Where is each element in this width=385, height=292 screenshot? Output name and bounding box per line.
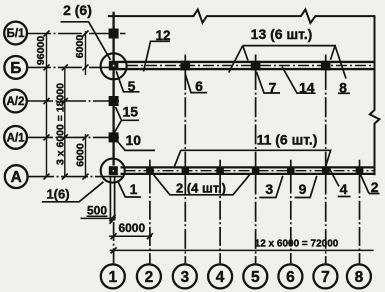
ticks 6000 bbox=[111, 233, 117, 239]
node circle at А x1 bbox=[101, 159, 125, 183]
beam А bottom chord bbox=[121, 173, 375, 175]
svg-text:А/2: А/2 bbox=[6, 96, 24, 108]
svg-text:6000: 6000 bbox=[74, 35, 86, 59]
svg-text:11 (6 шт.): 11 (6 шт.) bbox=[257, 131, 318, 147]
svg-text:2: 2 bbox=[145, 269, 154, 286]
top boundary line with two break zigzags bbox=[108, 9, 375, 23]
svg-text:Б/1: Б/1 bbox=[7, 28, 25, 40]
axis 1 vertical line (column line) bbox=[112, 12, 114, 166]
callout 3 shelf and leader bbox=[259, 176, 283, 198]
callout 8 shelf bbox=[338, 92, 350, 94]
svg-text:9: 9 bbox=[299, 181, 307, 197]
svg-text:6: 6 bbox=[195, 78, 203, 94]
callout 5 shelf and leader bbox=[116, 71, 139, 92]
callout 12 shelf and leader bbox=[144, 41, 171, 71]
svg-text:96000: 96000 bbox=[35, 36, 47, 65]
axis 4 vertical line bbox=[219, 160, 221, 264]
axis 7 vertical line bbox=[325, 55, 327, 265]
beam А node squares (axes 1-8) bbox=[109, 167, 117, 175]
svg-text:8: 8 bbox=[339, 79, 347, 95]
axis circle А bbox=[5, 165, 28, 188]
svg-text:7: 7 bbox=[321, 269, 330, 286]
callout 2 right shelf and leader bbox=[360, 173, 380, 194]
axis circle А/1 bbox=[4, 126, 27, 149]
axis 6 vertical line bbox=[290, 160, 292, 264]
node 6 square bbox=[181, 61, 190, 70]
dimension 500 underline bbox=[87, 215, 108, 217]
callout 15 shelf and leaders bbox=[114, 107, 139, 134]
svg-text:4: 4 bbox=[216, 269, 225, 286]
node 2(6) square at Б/1 x1 bbox=[109, 29, 118, 38]
callout 1(6) shelf and leader bbox=[42, 182, 104, 202]
svg-text:5: 5 bbox=[251, 269, 260, 286]
callout 9 shelf and leader bbox=[295, 176, 317, 198]
axis А/1 horizontal line bbox=[27, 136, 120, 138]
callout 1 shelf and leader bbox=[118, 181, 141, 198]
axis 3 vertical line bbox=[184, 55, 186, 265]
node 7 square bbox=[251, 61, 260, 70]
callout 10 shelf and leader bbox=[118, 142, 156, 151]
svg-text:12 x 6000 = 72000: 12 x 6000 = 72000 bbox=[255, 239, 339, 250]
node 5 square bbox=[109, 61, 118, 70]
tick rail end bbox=[110, 217, 116, 224]
dimension line 3x6000=18000 (x=64.8) bbox=[64, 67, 66, 176]
callout 4 shelf and leader bbox=[329, 167, 351, 197]
svg-text:6000: 6000 bbox=[75, 143, 87, 167]
svg-text:10: 10 bbox=[126, 132, 142, 148]
callout 2(6) shelf and leader bbox=[61, 22, 111, 60]
right boundary line with break zigzag bbox=[370, 15, 380, 175]
axis circle Б/1 bbox=[4, 22, 27, 45]
svg-text:14: 14 bbox=[299, 80, 315, 96]
svg-text:6: 6 bbox=[286, 269, 295, 286]
beam А top chord bbox=[121, 166, 375, 168]
tick 72000 left bbox=[111, 247, 117, 253]
callout 6 shelf and leader bbox=[185, 74, 207, 93]
callout 7 shelf and leader bbox=[257, 72, 281, 93]
axis circle А/2 bbox=[4, 90, 27, 113]
dimension 500 line bbox=[81, 217, 115, 219]
tick marks on left dimension lines bbox=[44, 31, 89, 180]
svg-text:2 (4 шт.): 2 (4 шт.) bbox=[176, 181, 226, 196]
beam Б bottom chord bbox=[118, 68, 374, 70]
svg-text:4: 4 bbox=[340, 181, 348, 197]
node 8 square bbox=[321, 61, 330, 70]
svg-text:Б: Б bbox=[10, 60, 21, 77]
axis Б/1 horizontal line bbox=[27, 33, 126, 35]
dimension line 6000 upper segment bbox=[85, 31, 87, 75]
node 15 square at А/2 x1 bbox=[109, 97, 118, 106]
node 10 square at А/1 x1 bbox=[109, 133, 118, 142]
axis А horizontal line bbox=[27, 176, 125, 178]
svg-text:А/1: А/1 bbox=[7, 133, 26, 145]
axis 1 rail double line below А bbox=[110, 177, 114, 221]
dimension 12x6000=72000 line bbox=[110, 249, 374, 251]
beam Б top chord bbox=[118, 61, 374, 63]
svg-text:1: 1 bbox=[108, 269, 117, 286]
svg-text:2: 2 bbox=[371, 179, 379, 195]
tick 500 bbox=[110, 214, 116, 221]
axis 1 lower dash-dot to circle 1 bbox=[113, 222, 115, 264]
svg-text:1(6): 1(6) bbox=[46, 187, 69, 202]
callout 14 shelf and leader bbox=[282, 67, 316, 94]
svg-text:А: А bbox=[11, 169, 22, 186]
axis Б horizontal line bbox=[27, 66, 109, 68]
callout 11 (6 шт.) shelf and leaders bbox=[174, 150, 330, 166]
beam А centerline dash-dot bbox=[125, 170, 375, 172]
dimension line 96000 (x=46.5) bbox=[46, 34, 48, 177]
svg-text:3 x 6000 = 18000: 3 x 6000 = 18000 bbox=[55, 83, 67, 165]
bottom axis circles 1-8 bbox=[101, 264, 125, 288]
axis А/2 horizontal line bbox=[27, 100, 120, 102]
svg-text:1: 1 bbox=[130, 181, 138, 197]
svg-text:500: 500 bbox=[87, 204, 107, 218]
callout 13 shelf and leaders bbox=[229, 46, 346, 79]
callout 2 (4 шт.) trapezoid leader bbox=[154, 175, 250, 195]
axis 2 vertical line bbox=[149, 160, 151, 264]
svg-text:5: 5 bbox=[128, 78, 136, 94]
svg-text:3: 3 bbox=[265, 181, 273, 197]
svg-text:8: 8 bbox=[355, 269, 364, 286]
node circle at Б x1 bbox=[101, 53, 127, 79]
svg-text:2 (6): 2 (6) bbox=[63, 2, 92, 18]
beam Б centerline dash-dot bbox=[127, 65, 374, 67]
dimension line 6000 lower segment bbox=[85, 134, 87, 179]
svg-text:3: 3 bbox=[180, 269, 189, 286]
svg-text:12: 12 bbox=[155, 28, 170, 43]
svg-text:7: 7 bbox=[269, 79, 277, 95]
svg-text:15: 15 bbox=[123, 104, 139, 120]
axis circle Б bbox=[4, 56, 27, 79]
svg-text:13 (6 шт.): 13 (6 шт.) bbox=[251, 26, 313, 42]
svg-text:6000: 6000 bbox=[118, 221, 145, 235]
axis 8 vertical line bbox=[359, 160, 361, 264]
axis 5 vertical line bbox=[255, 55, 257, 265]
dimension 6000 line (axes 1-2) bbox=[109, 235, 152, 237]
